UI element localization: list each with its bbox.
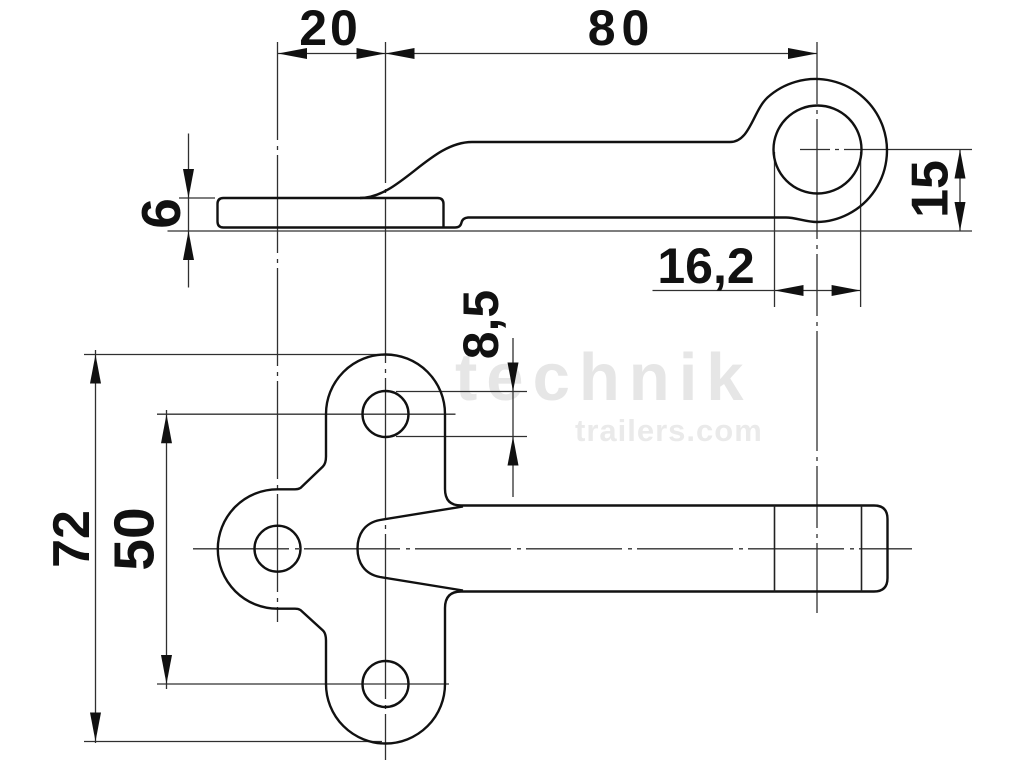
arrow dim6 bottom [183, 231, 194, 260]
dim 6 extension tick top [179, 197, 215, 199]
dim 72 extension top y=354.5 [84, 354, 381, 356]
centerline vertical through top/bottom holes x=385.5 [385, 42, 387, 760]
ring inner circle [774, 106, 862, 194]
dimension texts [43, 0, 960, 571]
dim 50 vertical line x=166.5 [166, 410, 168, 689]
arm pointed left end (tongue) [358, 507, 464, 591]
bottom hole [363, 661, 409, 707]
svg-text:8,5: 8,5 [453, 290, 509, 360]
arrow dim50 top [161, 414, 172, 443]
arrow dim72 bottom [90, 713, 101, 742]
svg-text:trailers.com: trailers.com [575, 413, 763, 448]
dim 6 vertical line x=188.5 [188, 134, 190, 288]
svg-text:6: 6 [130, 198, 192, 229]
dim 15 vertical line x=960 [959, 150, 961, 232]
dim 20/80 line y=53.5 [278, 53, 817, 55]
datum line under part y=231 [168, 230, 973, 232]
arrowheads [90, 48, 966, 742]
dim 72 vertical line x=95.5 [95, 350, 97, 743]
arrow dim16,2 left [775, 285, 804, 296]
svg-text:16,2: 16,2 [657, 238, 754, 294]
top hole [363, 391, 409, 437]
arrow dim80 left [386, 48, 415, 59]
arrow dim80 right [788, 48, 817, 59]
arrow dim20 right [357, 48, 386, 59]
plate top edge and right edge [224, 198, 444, 228]
arrow dim8,5 top [508, 363, 519, 392]
dim 16,2 line y=290.5 with leader under text [653, 290, 861, 292]
arrow dim16,2 right [832, 285, 861, 296]
dim 72 extension bottom y=741.5 [84, 741, 382, 743]
centerline horizontal ring y=149.5 [800, 149, 972, 151]
dim 8,5 extension top y=391.5 [396, 391, 527, 393]
dim 8,5 extension bottom y=436.5 [396, 436, 527, 438]
ring hole right edge projection in arm [861, 506, 863, 592]
arrow dim15 bottom [955, 202, 966, 231]
arrow dim20 left [278, 48, 307, 59]
ring hole left edge projection in arm [774, 506, 776, 592]
dim 16,2 extension left x=774.5 [774, 152, 776, 307]
svg-text:15: 15 [902, 160, 960, 218]
centerline horizontal top hole y=414.2 (50-dim top extension) [157, 413, 456, 415]
arrow dim15 top [955, 150, 966, 179]
dim 8,5 vertical line x=513 [512, 338, 514, 497]
bottom view outline [218, 355, 888, 744]
dim 16,2 extension right x=860.6 [860, 152, 862, 307]
middle hole [255, 526, 301, 572]
arrow dim6 top [183, 169, 194, 198]
svg-text:50: 50 [103, 507, 167, 570]
svg-text:80: 80 [588, 0, 656, 56]
svg-text:72: 72 [43, 510, 101, 568]
arrow dim8,5 bottom [508, 437, 519, 466]
centerline horizontal middle lug y=548.8 [193, 548, 912, 550]
centerline vertical through middle hole x=277.5 [277, 42, 279, 622]
plate left edge, bottom edge, step, arm underside, ring outer, arm top curve [218, 79, 887, 227]
arrow dim50 bottom [161, 655, 172, 684]
centerline vertical through ring x=817 [816, 42, 818, 613]
svg-text:20: 20 [299, 0, 361, 56]
arrow dim72 top [90, 355, 101, 384]
side view outline [218, 79, 887, 227]
trefoil plate with arm [218, 355, 888, 744]
centerline horizontal bottom hole y=684 (50-dim bottom extension) [157, 683, 449, 685]
